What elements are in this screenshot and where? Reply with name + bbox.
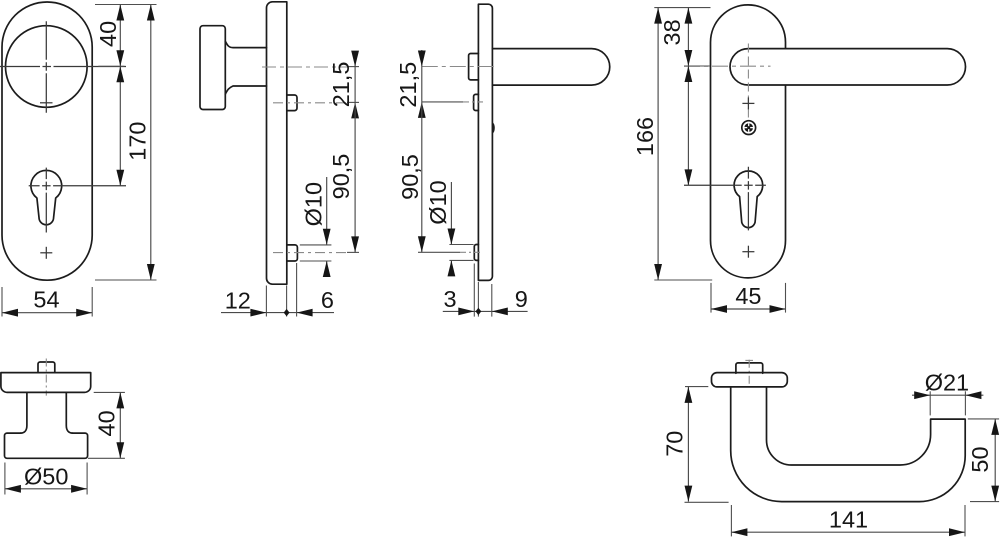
dimension 12 / 6 line (221, 312, 334, 314)
svg-text:3: 3 (443, 286, 456, 312)
dimension 45 (711, 308, 786, 310)
dimension segment lever to cylinder (687, 66, 689, 185)
upper tab centerline (422, 101, 463, 103)
extension lines Ø50 (4, 463, 6, 495)
upper fixing hole tick (40, 102, 53, 104)
svg-text:40: 40 (94, 410, 120, 436)
extension lines 54 (1, 287, 3, 317)
lever handle (730, 49, 966, 85)
extension lines Ø21 (929, 391, 931, 415)
keyhole horizontal centerline (29, 185, 126, 187)
extension pin end left (473, 264, 475, 317)
spindle centerline (748, 360, 750, 388)
svg-text:9: 9 (515, 286, 528, 312)
svg-text:90,5: 90,5 (397, 154, 423, 200)
svg-text:Ø21: Ø21 (925, 369, 969, 395)
extension lines 40 (94, 391, 125, 393)
dimension 166 (657, 8, 659, 280)
svg-text:141: 141 (829, 507, 868, 533)
svg-text:40: 40 (95, 21, 121, 47)
keyhole vertical centerline (747, 167, 749, 231)
plate bar side view (478, 4, 492, 280)
catch pin bump (492, 123, 494, 134)
upper tab centerline (273, 102, 347, 104)
hub vertical centerline (747, 44, 749, 119)
svg-text:21,5: 21,5 (328, 62, 354, 108)
extension plate back (286, 285, 288, 316)
dimension 40 line (119, 5, 121, 67)
plate bar side view (267, 2, 287, 284)
lever axis centerline (422, 66, 497, 68)
dimension 38 (687, 8, 689, 66)
lever grip side view (492, 49, 609, 86)
spindle centerline (45, 359, 47, 396)
knob neck right (66, 392, 72, 433)
extension line knob axis (98, 65, 124, 67)
dimension 21,5 (421, 50, 423, 102)
extension lines pin diameter (300, 244, 332, 246)
spindle (38, 362, 55, 373)
dimension segment knob to cylinder (119, 66, 121, 185)
knob vertical centerline (45, 21, 47, 113)
extension plate front left (477, 282, 479, 317)
spindle (736, 363, 763, 373)
extension line bottom (95, 279, 157, 281)
extension lines 70 (685, 386, 708, 388)
knob axis centerline (262, 66, 347, 68)
extension line bottom (654, 279, 712, 281)
extension line top (654, 7, 710, 9)
svg-text:Ø50: Ø50 (24, 464, 68, 490)
svg-text:38: 38 (659, 19, 685, 45)
lever grip outline (731, 387, 966, 501)
dimension 90,5 (421, 102, 423, 252)
fixing pin tab lower (474, 245, 478, 261)
extension plate back (491, 284, 493, 317)
lower fixing hole cross (742, 251, 754, 253)
spindle top tick (745, 359, 753, 361)
dimension Ø10 (450, 182, 452, 245)
shared datum diamond (284, 309, 290, 316)
svg-text:54: 54 (33, 287, 59, 313)
keyhole vertical centerline (45, 168, 47, 233)
extension lines 141 (730, 505, 732, 536)
dimension 90,5 (354, 102, 356, 252)
dimension Ø21 (930, 394, 965, 396)
knob head side view (200, 26, 225, 110)
svg-text:6: 6 (321, 287, 334, 313)
knob head (5, 433, 88, 458)
plate outline (oval escutcheon) (2, 2, 92, 280)
dimension Ø50 (5, 488, 87, 490)
shared datum diamond (476, 308, 482, 315)
profile cylinder keyhole (734, 171, 763, 228)
dimension Ø10 (326, 177, 328, 245)
fixing pin tab lower (287, 245, 298, 261)
svg-text:Ø10: Ø10 (425, 180, 451, 224)
svg-text:12: 12 (225, 288, 251, 314)
lever rose (712, 373, 788, 387)
knob rose (1, 373, 91, 393)
plate outline (711, 5, 786, 278)
spindle hub (469, 54, 479, 80)
dimension 70 (687, 387, 689, 502)
knob circle (6, 26, 88, 108)
dimension 54 line (2, 312, 92, 314)
profile cylinder keyhole (31, 170, 62, 224)
extension line top (95, 4, 157, 6)
knob neck bottom line (225, 86, 266, 94)
svg-text:70: 70 (662, 431, 688, 457)
dimension 141 (731, 531, 965, 533)
extension lines pin diameter (449, 244, 473, 246)
extension line lever axis (684, 65, 710, 67)
screw head (742, 121, 756, 135)
dimension 50 (994, 419, 996, 502)
dimension 3 / 9 line (443, 310, 528, 312)
svg-text:21,5: 21,5 (395, 62, 421, 108)
svg-text:50: 50 (967, 446, 993, 472)
dimension 170 line (150, 5, 152, 281)
fixing pin tab upper (474, 94, 479, 110)
upper fixing hole cross (742, 102, 754, 104)
svg-text:90,5: 90,5 (328, 154, 354, 200)
extension lines 45 (710, 283, 712, 313)
fixing pin tab upper (287, 95, 297, 111)
lower fixing hole cross (40, 252, 52, 254)
extension lines 50 (968, 418, 999, 420)
extension plate front (265, 286, 267, 317)
lower tab centerline (418, 251, 460, 253)
extension pin end (296, 263, 298, 317)
svg-text:166: 166 (632, 117, 658, 156)
svg-text:170: 170 (125, 121, 151, 160)
knob horizontal centerline (0, 66, 126, 68)
dimension 21,5 (354, 52, 356, 102)
knob neck left (21, 392, 27, 433)
knob neck top line (225, 41, 266, 47)
keyhole horizontal centerline (684, 184, 766, 186)
svg-text:45: 45 (735, 283, 761, 309)
hub horizontal centerline (684, 65, 771, 67)
svg-text:Ø10: Ø10 (301, 182, 327, 226)
dimension 40 (119, 392, 121, 458)
lower tab centerline (273, 252, 347, 254)
